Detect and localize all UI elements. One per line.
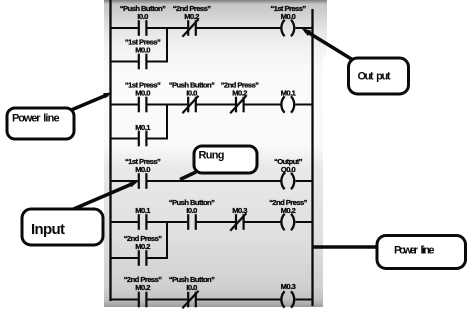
svg-text:M0.0: M0.0 <box>135 46 150 55</box>
svg-text:M0.1: M0.1 <box>135 206 151 215</box>
svg-text:I0.0: I0.0 <box>186 89 197 98</box>
svg-text:Power: Power <box>12 112 41 124</box>
svg-text:M0.2: M0.2 <box>135 283 150 292</box>
svg-text:line: line <box>421 244 435 256</box>
svg-text:M0.2: M0.2 <box>135 242 150 251</box>
svg-text:Q0.0: Q0.0 <box>281 165 296 174</box>
svg-text:Input: Input <box>31 221 65 238</box>
svg-text:Out: Out <box>358 71 374 83</box>
svg-text:M0.3: M0.3 <box>232 206 247 215</box>
svg-text:I0.0: I0.0 <box>137 12 148 21</box>
svg-text:Rung: Rung <box>199 150 225 162</box>
svg-text:M0.2: M0.2 <box>232 89 247 98</box>
svg-text:M0.0: M0.0 <box>135 89 150 98</box>
svg-text:line: line <box>43 112 59 124</box>
svg-text:M0.1: M0.1 <box>135 123 151 132</box>
svg-text:M0.0: M0.0 <box>281 12 296 21</box>
svg-text:M0.1: M0.1 <box>281 89 297 98</box>
svg-text:put: put <box>376 71 391 83</box>
svg-text:M0.0: M0.0 <box>135 165 150 174</box>
svg-text:I0.0: I0.0 <box>186 283 197 292</box>
svg-text:M0.3: M0.3 <box>281 282 296 291</box>
svg-text:I0.0: I0.0 <box>186 206 197 215</box>
svg-text:M0.2: M0.2 <box>281 206 296 215</box>
svg-text:M0.2: M0.2 <box>184 12 199 21</box>
svg-text:Power: Power <box>394 244 419 256</box>
